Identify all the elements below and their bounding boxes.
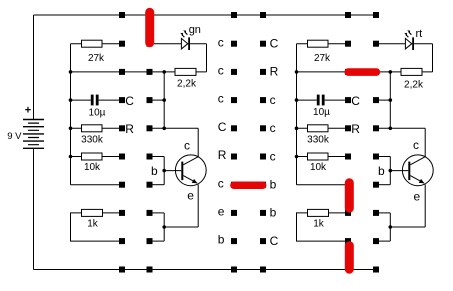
contact dots column M2	[260, 41, 266, 244]
wire right row6	[297, 184, 349, 186]
wire right row3 stub	[376, 99, 390, 101]
node letters middle right column	[270, 37, 279, 248]
jumper wire red top left	[145, 12, 154, 42]
wire right row8 stub	[376, 240, 390, 242]
resistor R2 330k left	[71, 125, 123, 132]
junction dots right bus	[295, 70, 299, 158]
wire right LED cathode to 2.2k	[413, 43, 432, 45]
svg-text:C: C	[125, 94, 134, 108]
contact dots column R1	[345, 41, 351, 244]
wire left row7 stub	[150, 212, 165, 214]
junction left emitter bracket	[162, 225, 166, 229]
svg-text:c: c	[218, 64, 224, 78]
wire right component bus	[296, 44, 298, 185]
jumper wire red rows6-7 right	[345, 183, 354, 208]
wire left LED anode row1	[150, 43, 182, 45]
jumper wire red row2 right	[348, 68, 376, 76]
junction dots left bus	[69, 70, 73, 158]
jumper wire red row8-rail right	[345, 246, 354, 270]
wire top supply rail	[34, 14, 377, 16]
contact dots column L2	[147, 41, 153, 244]
svg-text:9 V: 9 V	[7, 131, 22, 142]
svg-text:10µ: 10µ	[313, 107, 330, 118]
jumper wire red row6 middle	[234, 181, 263, 189]
svg-text:1k: 1k	[313, 219, 325, 230]
wire right row6 stub	[376, 184, 390, 186]
wire right row4 collector feed	[376, 127, 425, 129]
resistor R5 2.2k left	[164, 44, 206, 76]
wire right row7 stub	[376, 212, 390, 214]
wire left row6	[71, 184, 123, 186]
svg-text:10k: 10k	[84, 162, 101, 173]
battery BT1 9V	[23, 120, 44, 149]
resistor R3 10k left	[71, 153, 123, 160]
wire left row4 collector feed	[150, 127, 199, 129]
svg-text:c: c	[270, 93, 276, 107]
wire battery positive lead	[33, 15, 35, 120]
svg-text:330k: 330k	[307, 135, 330, 146]
svg-text:b: b	[151, 164, 158, 178]
svg-text:c: c	[218, 92, 224, 106]
wire left row6 stub	[150, 184, 165, 186]
svg-text:c: c	[218, 35, 224, 49]
wire right row5 stub	[376, 156, 390, 158]
resistor R4 1k left	[71, 209, 123, 241]
svg-text:b: b	[270, 206, 277, 220]
wire left component bus	[70, 44, 72, 185]
svg-text:c: c	[270, 149, 276, 163]
svg-text:R: R	[351, 122, 360, 136]
junction right emitter bracket	[389, 225, 393, 229]
capacitor C2 10u right	[297, 95, 349, 106]
contact dots column R2	[373, 41, 379, 244]
svg-text:rt: rt	[416, 28, 423, 40]
svg-text:10µ: 10µ	[89, 108, 106, 119]
svg-text:10k: 10k	[310, 162, 327, 173]
wire right collector bus	[389, 72, 391, 128]
svg-text:+: +	[25, 105, 31, 117]
svg-text:b: b	[218, 233, 225, 247]
junction dots right collector bus	[389, 70, 393, 130]
LED D2 red	[404, 30, 413, 50]
resistor R10 2.2k right	[390, 44, 432, 76]
resistor R7 330k right	[297, 125, 349, 132]
wire battery negative lead	[33, 149, 35, 270]
svg-text:e: e	[187, 189, 194, 203]
svg-text:27k: 27k	[88, 53, 105, 64]
wire right LED anode row1	[376, 43, 405, 45]
svg-text:c: c	[413, 138, 419, 152]
svg-text:e: e	[414, 190, 421, 204]
svg-text:c: c	[270, 121, 276, 135]
svg-text:C: C	[218, 120, 227, 134]
wire bottom supply rail	[34, 269, 380, 271]
wire right row2	[297, 71, 391, 73]
node letters middle left column	[218, 35, 227, 246]
wire left collector bus	[163, 72, 165, 128]
wire left row5 stub	[150, 156, 165, 158]
svg-text:R: R	[125, 122, 134, 136]
svg-text:2,2k: 2,2k	[177, 79, 197, 90]
capacitor C1 10u left	[71, 95, 123, 106]
resistor R6 27k right	[297, 40, 349, 47]
svg-text:C: C	[270, 37, 279, 51]
svg-text:c: c	[184, 138, 190, 152]
junction dots left collector bus	[162, 70, 166, 130]
contact dots column L1	[119, 41, 125, 244]
svg-text:e: e	[218, 205, 225, 219]
resistor R9 1k right	[297, 209, 349, 241]
svg-text:R: R	[218, 148, 227, 162]
svg-text:C: C	[270, 234, 279, 248]
wire left row8 stub	[150, 240, 165, 242]
svg-text:C: C	[351, 94, 360, 108]
junction right base bracket	[389, 169, 393, 173]
svg-text:330k: 330k	[81, 135, 104, 146]
resistor R8 10k right	[297, 153, 349, 160]
contact dots top rail	[119, 12, 379, 18]
junction left base bracket	[162, 169, 166, 173]
svg-text:gn: gn	[189, 24, 201, 36]
svg-text:1k: 1k	[87, 219, 99, 230]
wire left row3 stub	[150, 99, 165, 101]
svg-text:b: b	[378, 164, 385, 178]
transistor Q2 right	[390, 128, 433, 241]
svg-text:27k: 27k	[314, 53, 331, 64]
wire left LED cathode to 2.2k	[189, 43, 206, 45]
svg-text:b: b	[270, 178, 277, 192]
svg-text:R: R	[270, 65, 279, 79]
contact dots column M1	[231, 41, 237, 244]
svg-text:c: c	[218, 176, 224, 190]
wire left row2	[71, 71, 165, 73]
contact dots bottom rail	[119, 267, 379, 273]
resistor R1 27k left	[71, 40, 123, 47]
transistor Q1 left	[164, 128, 206, 241]
LED D1 green	[180, 30, 189, 50]
svg-text:2,2k: 2,2k	[404, 80, 424, 91]
